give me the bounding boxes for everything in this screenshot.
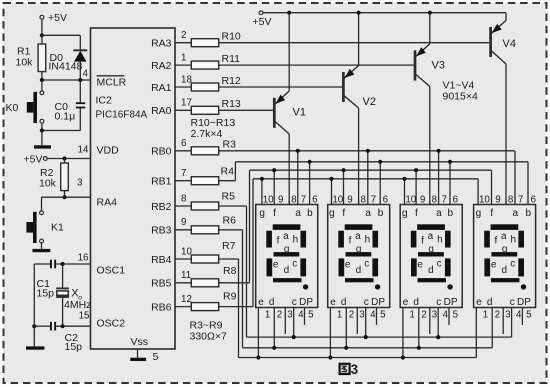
svg-text:f: f: [273, 208, 276, 219]
svg-text:c: c: [364, 297, 369, 308]
DS2 top pin wires 10 9 8 7 6: [329, 149, 382, 205]
svg-text:d: d: [284, 265, 290, 276]
svg-text:DP: DP: [299, 297, 313, 308]
svg-text:10k: 10k: [39, 178, 57, 190]
DS2 top pin numbers: [332, 195, 388, 206]
node junction OSC1/crystal: [61, 262, 65, 266]
svg-text:1: 1: [409, 310, 414, 321]
svg-text:17: 17: [181, 98, 192, 109]
svg-text:RA4: RA4: [97, 197, 118, 209]
wire RA4 net: [65, 196, 91, 198]
svg-text:e: e: [417, 260, 423, 271]
svg-text:1: 1: [483, 310, 488, 321]
svg-text:OSC1: OSC1: [97, 265, 126, 277]
DS2 bottom segment letters e d c DP: [330, 297, 385, 308]
wire R5 input from IC: [175, 205, 191, 207]
svg-text:R9: R9: [223, 291, 237, 303]
resistor R7: [191, 255, 218, 263]
svg-text:4MHz: 4MHz: [64, 299, 91, 311]
wire R4 input from IC: [175, 180, 191, 182]
svg-text:a: a: [513, 208, 519, 219]
svg-text:b: b: [526, 208, 532, 219]
node +5V rail junction V2: [357, 11, 361, 15]
svg-text:b: b: [307, 208, 313, 219]
svg-text:R5: R5: [222, 191, 236, 203]
svg-text:f: f: [415, 208, 418, 219]
transistor V1 (PNP 9015): [274, 13, 289, 205]
svg-text:9: 9: [278, 195, 283, 206]
svg-text:DP: DP: [371, 297, 385, 308]
node MCLR junction at R1: [40, 78, 44, 82]
wire R11 output to transistor base: [219, 64, 414, 66]
svg-text:d: d: [356, 265, 362, 276]
svg-text:0.1μ: 0.1μ: [55, 111, 76, 123]
wire R8 input from IC: [175, 282, 191, 284]
svg-text:a: a: [295, 208, 301, 219]
resistor R9: [191, 303, 218, 311]
svg-text:8: 8: [508, 195, 514, 206]
wire R10 input from IC: [175, 42, 191, 44]
svg-text:R7: R7: [222, 240, 236, 252]
svg-text:b: b: [378, 208, 384, 219]
svg-text:g: g: [356, 244, 362, 255]
svg-text:a: a: [501, 231, 507, 242]
svg-text:3: 3: [77, 178, 83, 189]
svg-text:3: 3: [505, 310, 511, 321]
wire OSC2 net: [56, 325, 91, 327]
svg-text:f: f: [490, 208, 493, 219]
DS3 top segment letters g f a b: [402, 208, 454, 219]
svg-text:1: 1: [337, 310, 342, 321]
DS4 seven-segment digit: [484, 224, 526, 289]
wire R7 input from IC: [175, 258, 191, 260]
wire MCLR net: [42, 79, 91, 81]
svg-text:10: 10: [332, 195, 343, 206]
DS1 top pin wires 10 9 8 7 6: [260, 149, 312, 205]
wire segment-d bus (R6): [243, 347, 493, 349]
wire R6 input from IC: [175, 229, 191, 231]
svg-text:+5V: +5V: [24, 153, 43, 165]
resistor R13: [191, 106, 218, 114]
transistor V3 (PNP 9015): [415, 13, 430, 205]
DS2 top segment letters g f a b: [329, 208, 384, 219]
svg-text:Vss: Vss: [131, 336, 149, 348]
svg-text:e: e: [258, 297, 264, 308]
svg-text:+5V: +5V: [48, 12, 67, 24]
svg-text:5: 5: [153, 351, 159, 363]
diode D0 IN4148: [73, 49, 87, 51]
svg-text:R4: R4: [221, 166, 235, 178]
DS4 bottom pin numbers: [483, 310, 532, 321]
svg-text:3: 3: [287, 310, 293, 321]
wire R7 drop to segment-e bus: [219, 258, 239, 260]
capacitor C1: [50, 260, 52, 269]
DS4 inner segment letters: [491, 231, 516, 276]
wire +5V rail: [263, 12, 506, 14]
svg-text:9: 9: [181, 217, 186, 228]
svg-text:RB6: RB6: [151, 301, 172, 313]
svg-text:7: 7: [301, 195, 306, 206]
svg-text:R8: R8: [223, 265, 237, 277]
svg-text:2.7k×4: 2.7k×4: [191, 128, 223, 140]
svg-text:h: h: [511, 235, 517, 246]
svg-text:R6: R6: [223, 215, 237, 227]
resistor R10: [191, 39, 218, 47]
svg-text:15p: 15p: [65, 341, 83, 353]
svg-text:a: a: [283, 231, 289, 242]
svg-text:6: 6: [181, 138, 187, 149]
svg-text:e: e: [273, 260, 279, 271]
capacitor C2: [50, 322, 52, 331]
svg-text:b: b: [448, 208, 454, 219]
svg-text:10k: 10k: [16, 57, 34, 69]
wire R9 input from IC: [175, 306, 191, 308]
svg-text:9: 9: [347, 195, 352, 206]
DS4 bottom pin wires 1 2 3 4 5: [476, 308, 522, 358]
DS1 seven-segment digit: [266, 224, 308, 289]
DS1 inner segment letters: [273, 231, 298, 276]
svg-text:e: e: [345, 260, 351, 271]
node junction +5V/R1/D0: [40, 33, 44, 37]
DS3 seven-segment digit: [411, 224, 453, 289]
DS3 top pin wires 10 9 8 7 6: [402, 149, 452, 205]
display DS4 box: [474, 205, 536, 308]
svg-text:d: d: [413, 297, 419, 308]
svg-text:330Ω×7: 330Ω×7: [190, 331, 228, 343]
resistor R11: [191, 61, 218, 69]
svg-text:9: 9: [420, 195, 425, 206]
wire segment-a bus (R3): [219, 150, 515, 152]
svg-text:8: 8: [291, 195, 297, 206]
svg-text:g: g: [428, 244, 434, 255]
svg-text:h: h: [293, 235, 299, 246]
ground below K0: [41, 131, 43, 146]
+5V terminal (display supply): [259, 11, 263, 15]
wire R9 riser to segment-g bus: [219, 306, 253, 308]
wire segment-f bus (R8): [250, 169, 492, 171]
svg-text:f: f: [421, 236, 424, 247]
svg-text:RB1: RB1: [151, 176, 172, 188]
svg-text:10: 10: [405, 195, 416, 206]
svg-text:e: e: [476, 297, 482, 308]
DS1 top segment letters g f a b: [259, 208, 313, 219]
wire R4 riser to segment-b bus: [219, 180, 236, 182]
svg-text:h: h: [437, 235, 443, 246]
svg-text:2: 2: [181, 30, 186, 41]
svg-text:f: f: [342, 208, 345, 219]
svg-text:10: 10: [479, 195, 490, 206]
svg-text:g: g: [259, 208, 265, 219]
wire segment-e bus (R7): [239, 357, 477, 359]
node junction R2 bottom / RA4: [62, 195, 66, 199]
svg-text:DP: DP: [517, 297, 531, 308]
svg-text:DP: DP: [444, 297, 458, 308]
svg-text:RA2: RA2: [151, 60, 172, 72]
svg-text:1: 1: [265, 310, 270, 321]
wire R12 output to transistor base: [219, 86, 342, 88]
wire OSC1 net: [56, 263, 91, 265]
DS4 top pin wires 10 9 8 7 6: [478, 151, 528, 205]
wire segment-c bus (R5): [247, 336, 512, 338]
wire C0 bottom to K0 bottom: [42, 130, 80, 132]
wire ground rail for C1/C2: [33, 264, 35, 346]
crystal X 4MHz: [62, 264, 64, 288]
svg-text:RB5: RB5: [151, 278, 172, 290]
svg-text:a: a: [355, 231, 361, 242]
svg-text:V3: V3: [432, 60, 445, 72]
svg-text:6: 6: [312, 195, 318, 206]
DS3 top pin numbers: [405, 195, 458, 206]
svg-text:5: 5: [380, 310, 386, 321]
svg-text:PIC16F84A: PIC16F84A: [96, 110, 148, 121]
svg-text:a: a: [428, 231, 434, 242]
transistor V2 (PNP 9015): [343, 13, 358, 205]
svg-text:6: 6: [383, 195, 389, 206]
svg-text:8: 8: [360, 195, 366, 206]
svg-text:RB3: RB3: [151, 225, 172, 237]
svg-text:d: d: [487, 297, 493, 308]
svg-text:2: 2: [277, 310, 282, 321]
svg-text:3: 3: [432, 310, 438, 321]
svg-text:d: d: [502, 265, 508, 276]
svg-text:6: 6: [530, 195, 536, 206]
resistor R6: [191, 226, 218, 234]
svg-text:R10: R10: [222, 31, 241, 43]
svg-text:RA1: RA1: [151, 82, 172, 94]
DS2 seven-segment digit: [338, 224, 380, 289]
wire segment-b bus (R4): [235, 161, 528, 163]
svg-text:h: h: [365, 235, 371, 246]
svg-text:g: g: [476, 208, 482, 219]
svg-text:e: e: [491, 260, 497, 271]
wire R10 output to transistor base: [219, 42, 490, 44]
wire R6 drop to segment-d bus: [219, 229, 243, 231]
svg-text:4: 4: [83, 69, 89, 80]
svg-text:e: e: [330, 297, 336, 308]
ground below K1: [41, 243, 43, 249]
svg-text:a: a: [436, 208, 442, 219]
DS4 top pin numbers: [479, 195, 537, 206]
svg-text:4: 4: [298, 310, 304, 321]
DS3 bottom segment letters e d c DP: [403, 297, 458, 308]
resistor R12: [191, 83, 218, 91]
svg-text:4: 4: [370, 310, 376, 321]
pushbutton K1: [40, 211, 44, 215]
svg-text:5: 5: [453, 310, 459, 321]
transistor V4 (PNP 9015): [491, 13, 506, 205]
svg-text:16: 16: [78, 253, 89, 264]
svg-text:4: 4: [443, 310, 449, 321]
svg-text:c: c: [364, 259, 369, 270]
svg-text:9: 9: [495, 195, 500, 206]
svg-text:f: f: [277, 236, 280, 247]
wire RA4 to K1: [42, 196, 65, 198]
svg-text:12: 12: [181, 294, 192, 305]
svg-text:5: 5: [308, 310, 314, 321]
svg-text:f: f: [495, 236, 498, 247]
svg-text:MCLR: MCLR: [97, 77, 127, 89]
svg-text:RA0: RA0: [151, 105, 172, 117]
svg-text:V2: V2: [363, 96, 376, 108]
node junction OSC2/crystal: [61, 324, 65, 328]
svg-text:7: 7: [441, 195, 446, 206]
svg-text:V4: V4: [503, 38, 516, 50]
DS2 bottom pin wires 1 2 3 4 5: [328, 308, 376, 360]
node K0/C0 ground junction: [40, 128, 44, 132]
resistor R8: [191, 279, 218, 287]
svg-text:9015×4: 9015×4: [443, 91, 478, 103]
svg-text:g: g: [284, 244, 290, 255]
svg-text:RB2: RB2: [151, 201, 172, 213]
+5V terminal (top left): [41, 19, 43, 34]
svg-text:2: 2: [349, 310, 354, 321]
DS3 bottom pin numbers: [409, 310, 458, 321]
pushbutton K0: [41, 80, 43, 91]
svg-text:c: c: [292, 297, 297, 308]
ground at Vss pin 5: [137, 349, 139, 358]
display DS1 box: [256, 205, 318, 308]
svg-text:K0: K0: [6, 102, 19, 114]
display DS2 box: [328, 205, 390, 308]
svg-text:OSC2: OSC2: [97, 318, 126, 330]
DS2 bottom pin numbers: [337, 310, 386, 321]
svg-text:7: 7: [371, 195, 376, 206]
wire R12 input from IC: [175, 86, 191, 88]
DS1 top pin numbers: [263, 195, 318, 206]
svg-text:IC2: IC2: [96, 95, 113, 107]
wire R13 output to transistor base: [219, 109, 273, 111]
capacitor C0: [79, 80, 81, 102]
svg-text:K1: K1: [51, 222, 64, 234]
svg-text:c: c: [436, 297, 441, 308]
DS4 bottom segment letters e d c DP: [476, 297, 531, 308]
figure caption 图3: [340, 362, 359, 377]
svg-text:8: 8: [432, 195, 438, 206]
DS2 inner segment letters: [345, 231, 370, 276]
svg-text:d: d: [428, 265, 434, 276]
DS1 bottom pin wires 1 2 3 4 5: [256, 308, 304, 360]
svg-text:R3: R3: [223, 139, 237, 151]
DS3 bottom pin wires 1 2 3 4 5: [401, 308, 449, 360]
svg-text:R11: R11: [222, 53, 241, 65]
svg-text:5: 5: [526, 310, 532, 321]
svg-text:c: c: [510, 297, 515, 308]
node MCLR junction at D0/C0: [78, 78, 82, 82]
wire R8 riser to segment-f bus: [219, 282, 250, 284]
svg-text:2: 2: [495, 310, 500, 321]
svg-text:10: 10: [263, 195, 274, 206]
resistor R1: [41, 35, 43, 44]
svg-text:a: a: [365, 208, 371, 219]
svg-text:g: g: [402, 208, 408, 219]
resistor R5: [191, 202, 218, 210]
svg-text:d: d: [341, 297, 347, 308]
svg-text:d: d: [269, 297, 275, 308]
svg-text:RB0: RB0: [151, 146, 172, 158]
svg-text:V1: V1: [293, 107, 306, 119]
wire R5 drop to segment-c bus: [219, 205, 247, 207]
node +5V rail junction V3: [428, 11, 432, 15]
node +5V rail junction V1: [287, 11, 291, 15]
resistor R4: [191, 177, 218, 185]
wire segment-g bus (R9): [253, 178, 478, 180]
DS4 top segment letters g f a b: [476, 208, 532, 219]
DS1 bottom segment letters e d c DP: [258, 297, 313, 308]
svg-text:7: 7: [518, 195, 523, 206]
wire R13 input from IC: [175, 109, 191, 111]
svg-text:VDD: VDD: [97, 145, 120, 157]
svg-text:2: 2: [421, 310, 426, 321]
svg-text:11: 11: [181, 270, 191, 281]
wire +5V branch to D0: [42, 34, 80, 36]
wire R3 input from IC: [175, 150, 191, 152]
ground below C1/C2 rail: [26, 346, 44, 349]
svg-text:R13: R13: [222, 98, 241, 110]
svg-text:IN4148: IN4148: [49, 61, 83, 73]
svg-text:3: 3: [359, 310, 365, 321]
svg-text:c: c: [292, 259, 297, 270]
display DS3 box: [400, 205, 462, 308]
node junction R2 top: [62, 156, 66, 160]
svg-text:1: 1: [181, 53, 186, 64]
svg-text:RB4: RB4: [151, 254, 172, 266]
wire R11 input from IC: [175, 64, 191, 66]
svg-text:3: 3: [351, 362, 359, 377]
svg-text:RA3: RA3: [151, 38, 172, 50]
svg-text:7: 7: [181, 168, 186, 179]
svg-text:c: c: [510, 259, 515, 270]
svg-text:15p: 15p: [37, 288, 55, 300]
node junction left rail / C2: [32, 324, 36, 328]
svg-text:8: 8: [181, 193, 187, 204]
resistor R3: [191, 147, 218, 155]
op IC2 PIC16F84A box: [91, 28, 176, 349]
svg-text:4: 4: [516, 310, 522, 321]
svg-text:+5V: +5V: [253, 16, 272, 28]
DS1 bottom pin numbers: [265, 310, 314, 321]
svg-text:g: g: [502, 244, 508, 255]
svg-text:f: f: [349, 236, 352, 247]
svg-text:c: c: [437, 259, 442, 270]
svg-text:6: 6: [452, 195, 458, 206]
svg-text:14: 14: [78, 145, 89, 156]
resistor R2: [64, 159, 66, 164]
svg-text:15: 15: [79, 311, 90, 322]
svg-text:g: g: [329, 208, 335, 219]
svg-text:R12: R12: [222, 75, 241, 87]
DS3 inner segment letters: [417, 231, 442, 276]
svg-text:e: e: [403, 297, 409, 308]
